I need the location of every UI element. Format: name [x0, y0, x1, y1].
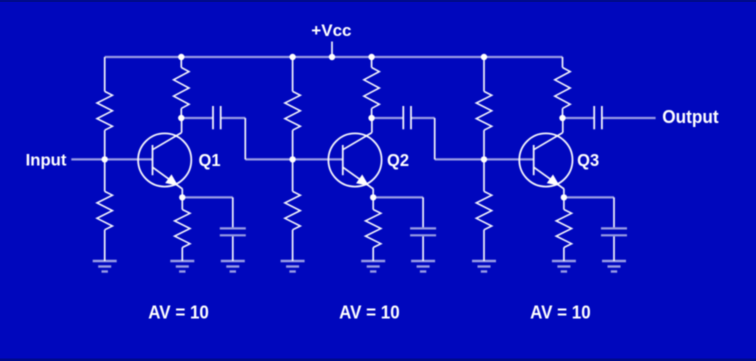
- node emitter junction stage 3: [561, 194, 567, 200]
- node collector junction stage 1: [178, 115, 184, 121]
- node rail junction stage 3 bias: [481, 54, 487, 60]
- resistor lower bias stage 3: [476, 191, 491, 229]
- ground bypass cap stage 3: [602, 261, 626, 272]
- transistor Q2: [328, 118, 381, 197]
- wire coupling cap output stage 1: [221, 117, 246, 119]
- ground emitter stage 1: [170, 261, 194, 272]
- wire emitter node to bypass cap stage 1: [182, 196, 233, 198]
- resistor upper bias stage 3: [476, 91, 491, 130]
- wire collector node to coupling cap stage 1: [181, 117, 213, 119]
- wire base lead stage 2: [293, 158, 343, 160]
- resistor upper bias stage 2: [285, 91, 300, 130]
- capacitor coupling stage 3: [594, 106, 602, 129]
- ground bias divider stage 3: [472, 261, 496, 272]
- wire base node to lower bias resistor stage 2: [292, 159, 294, 191]
- resistor collector stage 2: [364, 68, 379, 109]
- capacitor emitter bypass stage 3: [601, 228, 627, 235]
- label AV = 10 stage 1: [148, 302, 209, 323]
- wire base lead stage 1: [105, 158, 153, 160]
- wire lower bias resistor to ground stage 1: [104, 230, 106, 261]
- wire rail to bias resistor stage 3: [483, 57, 485, 91]
- label AV = 10 stage 2: [339, 302, 400, 323]
- wire rail to collector resistor stage 1: [180, 57, 182, 68]
- label Output: [662, 106, 718, 126]
- capacitor emitter bypass stage 1: [220, 228, 246, 235]
- label Q1: [199, 149, 221, 170]
- node base junction stage 3: [481, 156, 487, 162]
- wire output lead: [602, 117, 656, 119]
- wire bypass cap to ground stage 1: [232, 236, 234, 261]
- svg-text:AV = 10: AV = 10: [148, 302, 209, 323]
- wire emitter node to resistor stage 1: [181, 197, 183, 209]
- transistor Q1: [138, 118, 191, 197]
- node Vcc tap junction: [329, 54, 335, 60]
- wire emitter node to bypass cap stage 2: [373, 196, 423, 198]
- node base junction stage 1: [102, 156, 108, 162]
- wire +Vcc supply rail: [105, 56, 563, 58]
- label Q2: [387, 149, 409, 170]
- node collector junction stage 2: [368, 115, 374, 121]
- wire emitter node to resistor stage 3: [563, 197, 565, 209]
- wire to next stage base node stage 1: [245, 158, 292, 160]
- label Q3: [577, 149, 599, 170]
- svg-text:Q1: Q1: [199, 149, 221, 170]
- wire down to bypass cap stage 2: [422, 197, 424, 227]
- wire bias resistor to base node stage 1: [104, 130, 106, 159]
- wire collector node to coupling cap stage 2: [372, 117, 404, 119]
- resistor emitter stage 2: [366, 210, 381, 248]
- wire Vcc tap lead: [331, 42, 333, 58]
- ground emitter stage 3: [552, 261, 576, 272]
- ground emitter stage 2: [361, 261, 385, 272]
- wire bypass cap to ground stage 2: [422, 236, 424, 261]
- ground bias divider stage 2: [281, 261, 305, 272]
- wire down to bypass cap stage 1: [232, 197, 234, 227]
- capacitor emitter bypass stage 2: [410, 228, 436, 235]
- wire input lead: [71, 158, 104, 160]
- wire rail to collector resistor stage 2: [371, 57, 373, 68]
- wire bias resistor to base node stage 3: [483, 130, 485, 159]
- resistor collector stage 3: [555, 68, 570, 109]
- wire collector node to coupling cap stage 3: [563, 117, 595, 119]
- wire collector resistor to collector node stage 2: [371, 108, 373, 118]
- node rail junction stage 2 collector: [368, 54, 374, 60]
- wire down from coupling cap stage 2: [434, 118, 436, 159]
- node base junction stage 2: [289, 156, 295, 162]
- svg-text:+Vcc: +Vcc: [311, 21, 351, 40]
- svg-text:AV = 10: AV = 10: [339, 302, 400, 323]
- node rail junction stage 1 collector: [178, 54, 184, 60]
- wire emitter node to bypass cap stage 3: [564, 196, 614, 198]
- node emitter junction stage 1: [179, 194, 185, 200]
- wire emitter resistor to ground stage 3: [563, 248, 565, 262]
- wire base node to lower bias resistor stage 3: [483, 159, 485, 191]
- wire emitter node to resistor stage 2: [372, 197, 374, 209]
- wire emitter resistor to ground stage 1: [181, 248, 183, 262]
- resistor upper bias stage 1: [97, 91, 112, 130]
- capacitor coupling stage 1: [213, 106, 221, 129]
- wire rail corner down to R1a: [104, 57, 106, 91]
- node collector junction stage 3: [559, 115, 565, 121]
- wire collector resistor to collector node stage 1: [180, 108, 182, 118]
- resistor lower bias stage 2: [285, 191, 300, 229]
- wire rail corner down to collector resistor stage 3: [562, 57, 564, 68]
- resistor emitter stage 1: [175, 210, 190, 248]
- svg-text:Input: Input: [26, 151, 67, 170]
- wire lower bias resistor to ground stage 2: [292, 230, 294, 261]
- wire lower bias resistor to ground stage 3: [483, 230, 485, 261]
- wire bias resistor to base node stage 2: [292, 130, 294, 159]
- svg-text:Q2: Q2: [387, 149, 409, 170]
- ground bypass cap stage 2: [411, 261, 435, 272]
- wire base node to lower bias resistor stage 1: [104, 159, 106, 191]
- wire down to bypass cap stage 3: [613, 197, 615, 227]
- resistor emitter stage 3: [556, 210, 571, 248]
- resistor lower bias stage 1: [97, 191, 112, 229]
- wire coupling cap output stage 2: [411, 117, 435, 119]
- svg-text:Output: Output: [662, 106, 718, 126]
- capacitor coupling stage 2: [403, 106, 411, 129]
- wire down from coupling cap stage 1: [244, 118, 246, 159]
- node rail junction stage 2 bias: [289, 54, 295, 60]
- resistor collector stage 1: [174, 68, 189, 109]
- wire to next stage base node stage 2: [435, 158, 484, 160]
- wire base lead stage 3: [484, 158, 534, 160]
- label +Vcc: [311, 21, 351, 40]
- node emitter junction stage 2: [370, 194, 376, 200]
- ground bypass cap stage 1: [221, 261, 245, 272]
- wire rail to bias resistor stage 2: [292, 57, 294, 91]
- svg-text:Q3: Q3: [577, 149, 599, 170]
- wire bypass cap to ground stage 3: [613, 236, 615, 261]
- ground bias divider stage 1: [93, 261, 117, 272]
- transistor Q3: [519, 118, 572, 197]
- label Input: [26, 151, 67, 170]
- wire emitter resistor to ground stage 2: [372, 248, 374, 262]
- label AV = 10 stage 3: [530, 302, 591, 323]
- svg-text:AV = 10: AV = 10: [530, 302, 591, 323]
- wire collector resistor to collector node stage 3: [562, 108, 564, 118]
